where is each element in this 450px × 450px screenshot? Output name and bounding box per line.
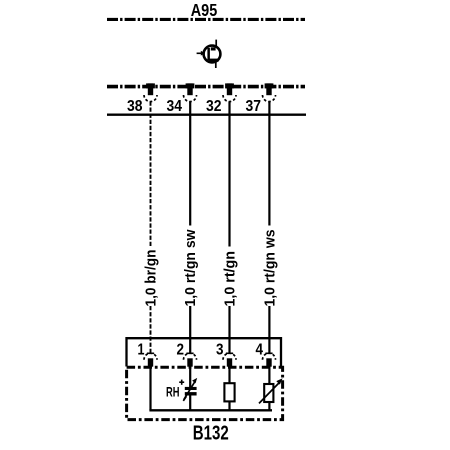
socket cup pin 2 of B132 bbox=[184, 353, 197, 360]
arrow tail foot bbox=[183, 396, 186, 401]
pin 1 of B132 (male pin) bbox=[148, 358, 153, 366]
wire 2 end serif bbox=[186, 352, 193, 354]
wire 3 end serif bbox=[226, 352, 233, 354]
svg-text:1,0 rt/gn: 1,0 rt/gn bbox=[221, 251, 238, 307]
svg-text:34: 34 bbox=[167, 98, 183, 115]
harness bus line below connector bbox=[107, 113, 306, 115]
plus sign bbox=[179, 380, 184, 385]
socket cup pin 3 of B132 bbox=[223, 353, 236, 360]
dashed boundary line of control unit A95 bbox=[107, 18, 305, 21]
connector housing of B132 (solid U frame) bbox=[127, 338, 282, 366]
socket cup pin 32 bbox=[223, 95, 236, 102]
component outline B132 (dash-dot box) bbox=[127, 367, 283, 419]
wire 1 upper stem (dashed) bbox=[150, 101, 152, 246]
socket cup pin 4 of B132 bbox=[263, 353, 276, 360]
variable-capacitor arrow bbox=[184, 381, 196, 400]
capacitive humidity sensor plates bbox=[185, 387, 197, 390]
socket cup pin 34 bbox=[184, 95, 197, 102]
pin 32 of A95 (male pin) bbox=[225, 83, 234, 95]
socket cup pin 1 of B132 bbox=[144, 353, 157, 360]
svg-text:1,0 rt/gn sw: 1,0 rt/gn sw bbox=[182, 229, 199, 306]
variable resistor (temperature sensor) element bbox=[264, 384, 273, 402]
internal wire pin3 to resistor bbox=[228, 366, 230, 384]
svg-text:RH: RH bbox=[166, 383, 180, 399]
resistor element bbox=[224, 383, 234, 401]
pin 34 of A95 (male pin) bbox=[186, 83, 195, 95]
icon top lead bbox=[215, 40, 217, 47]
pin 38 of A95 (male pin) bbox=[146, 83, 155, 95]
wire below resistor bbox=[228, 401, 230, 410]
svg-text:A95: A95 bbox=[191, 0, 218, 20]
svg-text:4: 4 bbox=[256, 342, 264, 359]
svg-text:1,0 rt/gn ws: 1,0 rt/gn ws bbox=[261, 230, 278, 307]
icon: circular connector/function symbol inside A95 bbox=[197, 40, 221, 68]
svg-text:38: 38 bbox=[127, 98, 143, 115]
svg-text:B132: B132 bbox=[193, 422, 229, 445]
wire 3 upper segment bbox=[228, 101, 230, 246]
wire 3 lower segment bbox=[228, 306, 230, 353]
wire 4 upper segment bbox=[268, 101, 270, 225]
svg-text:1: 1 bbox=[138, 342, 145, 359]
internal common bus bbox=[149, 409, 272, 411]
wire 1 end serif bbox=[147, 352, 154, 354]
pin 4 of B132 (male pin) bbox=[266, 358, 271, 366]
icon bottom lead bbox=[215, 62, 217, 68]
wire below sensor bbox=[189, 395, 191, 410]
internal wire pin2 to sensor bbox=[189, 366, 191, 387]
wire 4 end serif bbox=[265, 352, 272, 354]
svg-text:37: 37 bbox=[246, 98, 262, 115]
svg-text:1,0 br/gn: 1,0 br/gn bbox=[142, 250, 159, 307]
pin 3 of B132 (male pin) bbox=[227, 358, 232, 366]
svg-text:2: 2 bbox=[177, 342, 185, 359]
icon inner top bar bbox=[211, 47, 216, 50]
svg-text:3: 3 bbox=[216, 342, 224, 359]
icon inner left bar bbox=[207, 48, 210, 60]
svg-text:32: 32 bbox=[206, 98, 222, 115]
variable resistor arrow bbox=[259, 382, 280, 403]
pin 37 of A95 (male pin) bbox=[265, 83, 274, 95]
internal wire pin4 to variable resistor bbox=[268, 366, 270, 384]
icon inner bottom bar bbox=[209, 59, 219, 62]
wire below variable resistor bbox=[268, 402, 270, 410]
dashed connector strip line of A95 bbox=[107, 85, 305, 89]
pin 2 of B132 (male pin) bbox=[187, 358, 192, 366]
wire 2 upper segment bbox=[189, 101, 191, 225]
wire 4 lower segment bbox=[268, 306, 270, 353]
socket cup pin 38 bbox=[144, 95, 157, 102]
wire 2 lower segment bbox=[189, 306, 191, 353]
icon circle bbox=[204, 46, 221, 63]
socket cup pin 37 bbox=[263, 95, 276, 102]
wire 1 lower stem (dashed) bbox=[150, 306, 152, 353]
internal wire pin1 down bbox=[149, 366, 151, 410]
icon left arrow lead bbox=[197, 52, 203, 54]
